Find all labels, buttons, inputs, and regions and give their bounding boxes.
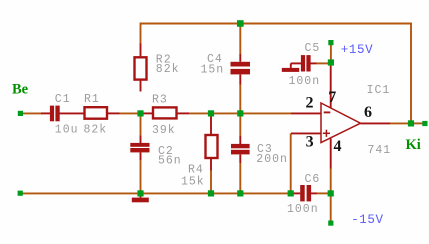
ground symbol at C5 [282,63,299,72]
svg-text:100n: 100n [287,203,319,216]
junction node F output [408,120,414,126]
wire C4 bottom lead [239,75,241,85]
wire C5 left lead [291,62,301,64]
svg-text:R1: R1 [84,93,100,106]
svg-text:10u: 10u [55,123,79,136]
svg-text:82k: 82k [156,63,180,76]
wire R2 top lead [140,44,142,57]
wire op-amp pin 4 lead [330,139,332,169]
svg-text:Be: Be [12,82,29,98]
svg-text:741: 741 [368,144,392,157]
wire C3 to bottom rail [239,163,241,193]
junction node E -15V [328,190,334,196]
junction node top C4 [237,20,244,27]
wire R1 to node A [120,112,141,114]
pad -15V [328,221,333,226]
junction node A [137,110,143,116]
svg-text:+15V: +15V [341,43,373,57]
svg-text:100n: 100n [289,75,321,88]
junction node C [237,110,243,116]
junction node B [208,110,214,116]
svg-text:-15V: -15V [351,213,383,227]
wire C1-R1 leads [60,112,84,114]
wire top feedback rail [141,24,412,124]
op-amp U1 triangle [321,103,361,143]
wire R3 to node B [189,112,211,114]
svg-text:Ki: Ki [406,137,421,153]
op-amp plus input mark [323,130,330,137]
wire +15V pad to node E2 [330,43,332,63]
capacitor C3 [231,144,250,155]
svg-text:4: 4 [334,138,342,155]
svg-text:82k: 82k [84,123,108,136]
wire op-amp output to node F [390,122,411,124]
wire R4 top lead [210,116,212,135]
ground symbol at bottom rail [132,193,149,202]
svg-text:39k: 39k [152,124,176,137]
svg-text:C5: C5 [305,42,321,55]
wire C5 right lead [311,62,317,64]
wire node F to output pad [411,122,423,124]
junction node +15V [328,59,334,65]
wire bottom ground rail [21,192,291,194]
capacitor C2 [130,143,149,153]
resistor R1 [85,107,108,119]
wire C2 to bottom rail [140,160,142,193]
wire C3 top lead [239,136,241,144]
svg-text:C1: C1 [55,93,71,106]
wire op-amp pin 2 lead [291,112,321,114]
wire C6 right lead [311,192,317,194]
junction node D gnd [288,190,294,196]
pad +15V [328,40,333,45]
svg-text:2: 2 [306,95,314,112]
wire node C down to C3 [239,113,241,135]
svg-text:7: 7 [328,89,336,106]
pad Ki output [422,121,427,126]
wire node D riser to op-amp pin 3 [290,133,292,193]
svg-text:3: 3 [306,133,314,150]
wire C4 top lead [239,54,241,62]
wire C1 left lead [41,112,50,114]
wire node B to node C [211,112,240,114]
wire op-amp pin 3 lead [291,132,321,134]
wire pin 4 to -15V pad [330,169,332,224]
wire op-amp pin 7 lead [330,66,332,109]
op-amp minus input mark [324,111,331,113]
svg-text:R3: R3 [152,94,168,107]
wire C6 to node E [317,192,331,194]
wire R3 left lead [144,112,153,114]
svg-text:56n: 56n [158,155,182,168]
pad ground input [18,191,23,196]
resistor R2 [135,57,147,79]
junction node A gnd [137,190,143,196]
svg-text:C6: C6 [305,173,321,186]
wire C2 top lead [140,135,142,143]
junction node B gnd [208,190,214,196]
resistor R3 [153,107,177,118]
wire node A down to C2 [140,113,142,135]
svg-text:IC1: IC1 [367,84,391,97]
capacitor C6 [300,185,311,201]
capacitor C5 [301,55,311,71]
wire R3 right lead [178,112,190,114]
wire C2 bottom lead [140,152,142,160]
wire C3 bottom lead [239,155,241,164]
wire C5 to node E2 [317,62,331,64]
resistor R4 [206,135,218,158]
pad Be input [18,111,23,116]
svg-text:15n: 15n [201,64,225,77]
junction node C gnd [237,190,243,196]
wire R1 right lead [108,112,120,114]
wire R4 to bottom rail [210,171,212,194]
wire R2 bottom lead [140,81,142,92]
wire C6 left lead [294,192,301,194]
wire C4 top drop [239,24,241,55]
wire node C to op-amp pin 2 [240,112,291,114]
capacitor C1 [50,106,60,122]
wire R4 bottom lead [210,159,212,171]
wire input pad to C1 [21,112,42,114]
svg-text:200n: 200n [256,153,288,166]
svg-text:6: 6 [364,104,372,121]
wire C4 bottom to main line [239,85,241,114]
svg-text:15k: 15k [181,175,205,188]
capacitor C4 [231,62,251,75]
wire op-amp pin 6 lead [361,122,391,124]
